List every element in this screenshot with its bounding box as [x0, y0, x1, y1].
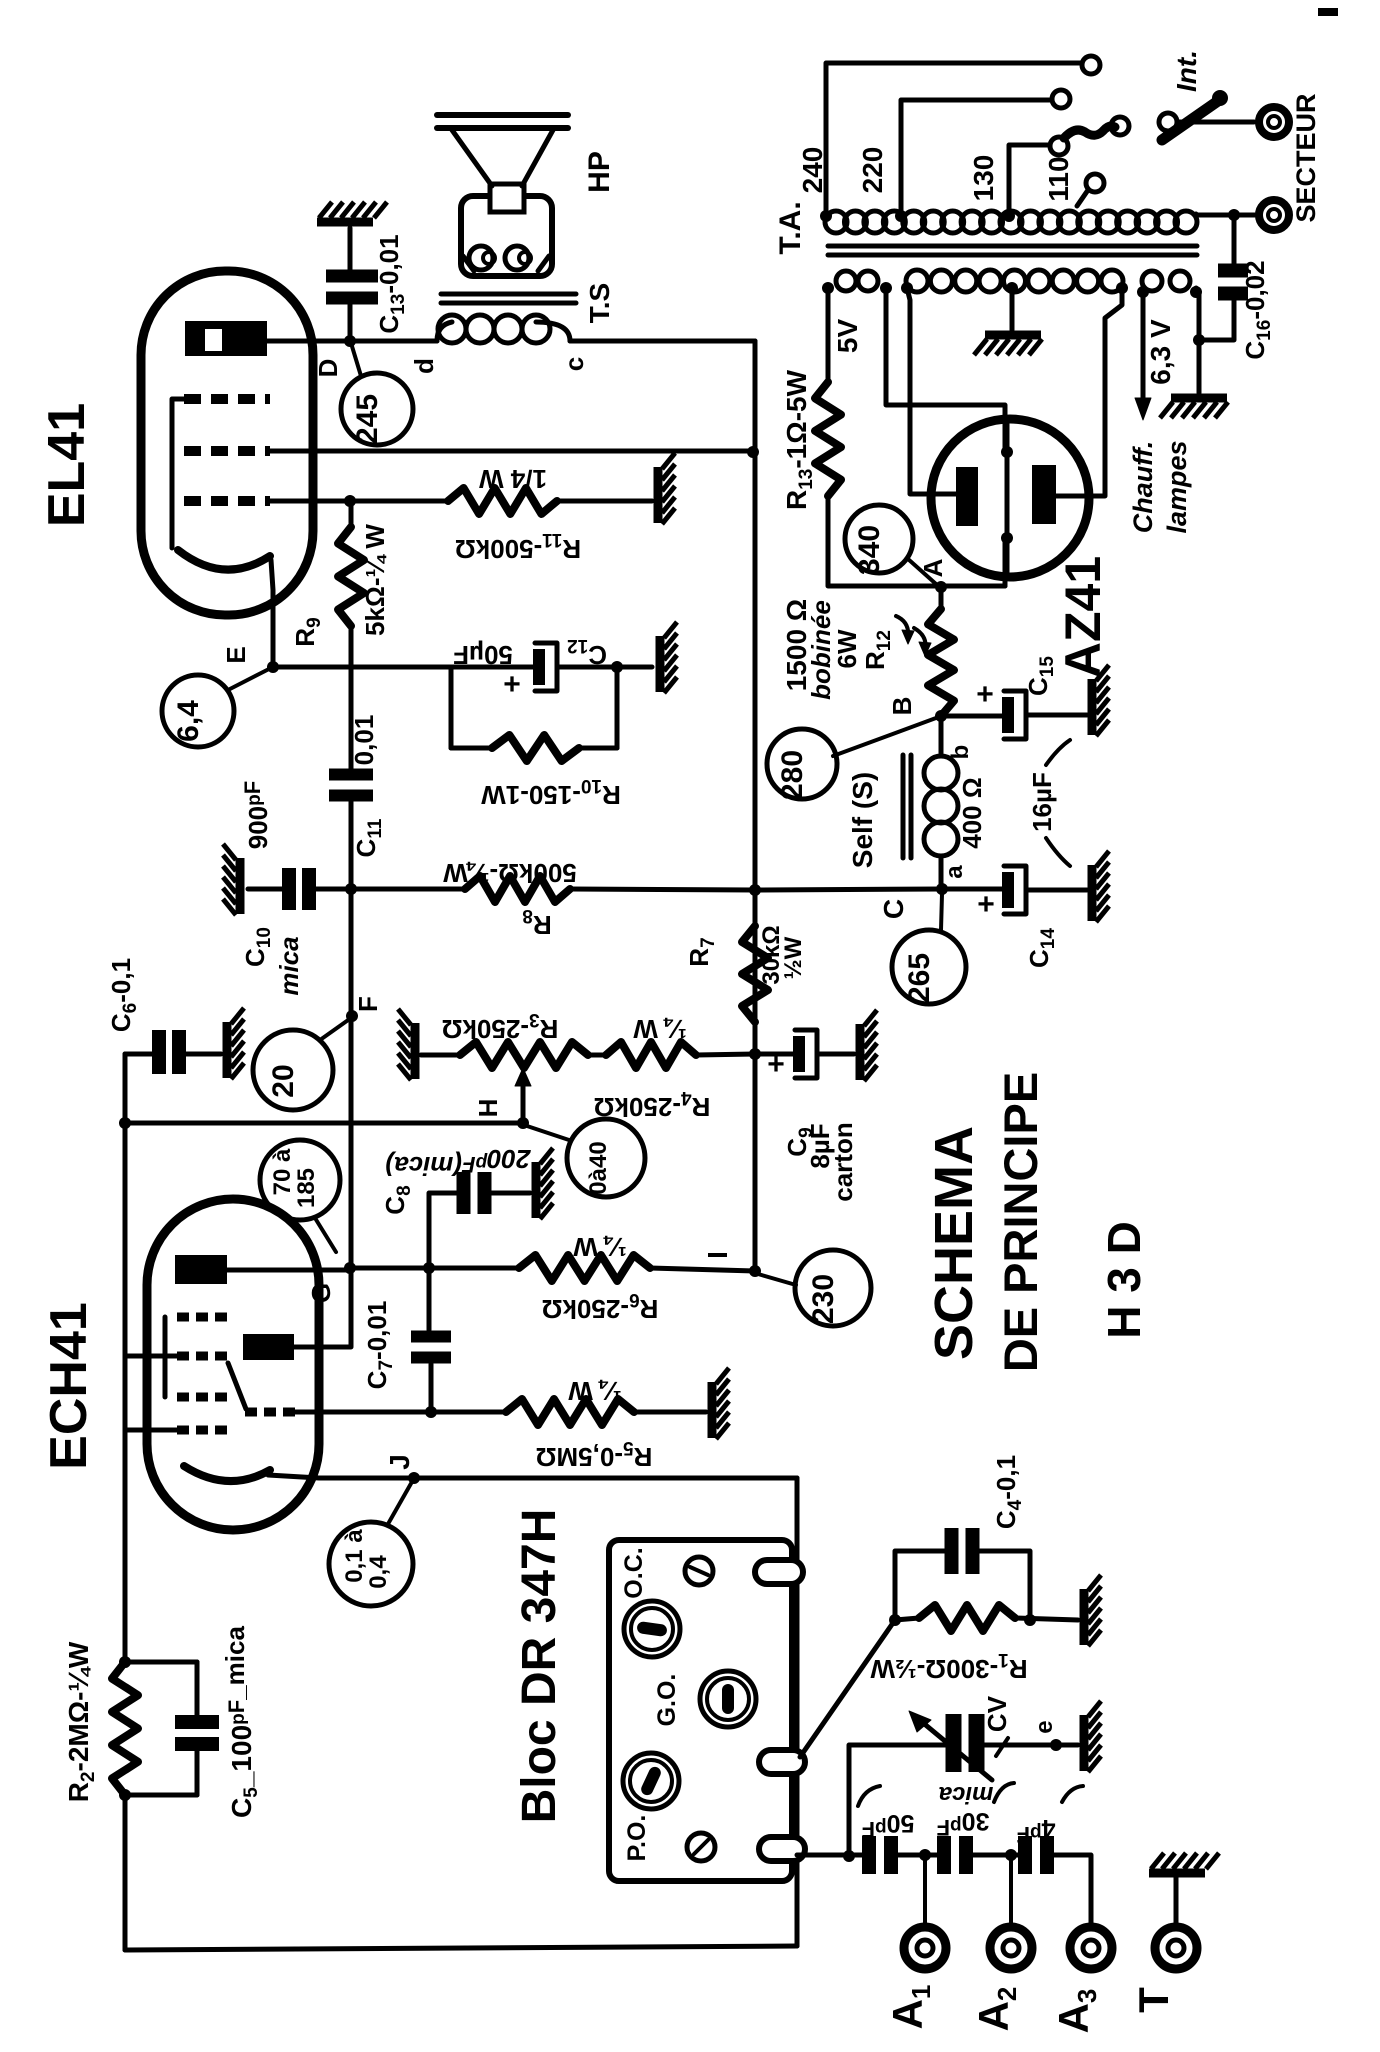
ground (C8): [532, 1162, 541, 1218]
capacitor C14 electrolytic: [1002, 872, 1014, 908]
svg-text:I: I: [702, 1251, 733, 1259]
T.A. HT winding: [906, 270, 928, 292]
EL41 anode plate: [185, 321, 267, 356]
circle 0,1a0,4: [329, 1522, 413, 1606]
svg-text:P.O.: P.O.: [623, 1815, 651, 1862]
wiper arrow: [521, 1075, 526, 1123]
svg-text:245: 245: [351, 394, 384, 444]
capacitor C13 wire: [348, 304, 353, 341]
node A junction: [935, 581, 947, 593]
svg-text:265: 265: [903, 953, 936, 1003]
Bloc box: [609, 1540, 792, 1881]
wire C11 to rail: [349, 801, 354, 889]
junction CV drop: [843, 1850, 855, 1862]
svg-text:SECTEUR: SECTEUR: [1291, 93, 1321, 222]
junction C7/R5: [425, 1406, 437, 1418]
svg-text:H: H: [473, 1099, 503, 1118]
wire HT center tap: [1010, 288, 1015, 330]
EL41 g3-cathode rail: [172, 399, 186, 548]
wire 240 tap: [826, 63, 1082, 214]
trimmer screw OC: [685, 1557, 713, 1585]
wire C2-C1: [972, 1853, 1019, 1858]
wire R9 to C11: [349, 667, 354, 769]
svg-text:0,4: 0,4: [365, 1555, 392, 1589]
ECH41 hexode anode: [175, 1255, 227, 1284]
resistor R6: [519, 1255, 650, 1281]
svg-text:+: +: [767, 1048, 785, 1081]
pointer 280 to B: [833, 718, 936, 756]
circle 0a40: [567, 1119, 645, 1197]
node B junction: [935, 710, 947, 722]
knob PO: [623, 1753, 679, 1809]
resistor R3: [460, 1042, 588, 1068]
pointer 70a185: [315, 1218, 336, 1252]
svg-text:mica: mica: [939, 1781, 994, 1808]
pointer 6,4 to E: [228, 669, 269, 690]
junction A1 drop: [919, 1849, 931, 1861]
wire anode row: [350, 1266, 519, 1271]
capacitor C13: [326, 270, 378, 283]
wire 6,3V left arrow: [1141, 290, 1146, 405]
terminal SECTEUR bottom: [1259, 200, 1289, 230]
svg-text:400 Ω: 400 Ω: [957, 777, 987, 848]
wire R6 to I: [650, 1268, 755, 1271]
svg-text:340: 340: [853, 525, 886, 575]
svg-text:¼ W: ¼ W: [568, 1376, 622, 1406]
Bloc bus vertical: [795, 1478, 800, 1946]
transformer T.A. primary: [825, 211, 847, 233]
svg-text:mica: mica: [274, 936, 304, 995]
T.S secondary loops: [469, 246, 493, 270]
svg-text:R5-0,5MΩ: R5-0,5MΩ: [536, 1437, 653, 1472]
speaker HP rim: [437, 112, 568, 118]
svg-text:T.S: T.S: [584, 283, 615, 323]
wire 110 tap: [1077, 190, 1088, 206]
wire C15 to ground: [1026, 713, 1087, 718]
svg-text:230: 230: [807, 1274, 840, 1324]
svg-text:C13-0,01: C13-0,01: [374, 234, 409, 333]
knob GO: [700, 1671, 756, 1727]
wire C to C14: [942, 887, 1002, 892]
resistor R12: [939, 587, 944, 609]
svg-text:6W: 6W: [832, 629, 862, 668]
wire rail to C: [755, 889, 942, 890]
svg-text:¼ W: ¼ W: [633, 1014, 687, 1044]
ECH41 grid row3: [177, 1393, 227, 1402]
transformer T.S primary: [438, 315, 466, 343]
svg-text:¼ W: ¼ W: [573, 1232, 627, 1262]
svg-text:carton: carton: [828, 1122, 858, 1201]
ground (CV): [1080, 1715, 1089, 1771]
terminal A3: [1070, 1927, 1112, 1969]
choke Self coil: [939, 716, 944, 755]
svg-text:16µF: 16µF: [1027, 772, 1057, 832]
svg-text:5kΩ-¼ W: 5kΩ-¼ W: [360, 524, 390, 636]
ECH41 triode anode: [243, 1334, 294, 1360]
bracket arc C2: [994, 1783, 1014, 1802]
capacitor C12 electrolytic: [533, 649, 545, 685]
wire R4 to node: [696, 1054, 755, 1055]
capacitor C6: [152, 1030, 166, 1074]
wire to ground (E): [617, 665, 652, 670]
junction R1 left: [889, 1614, 901, 1626]
wire C7 top: [427, 1268, 432, 1330]
svg-text:Self (S): Self (S): [847, 772, 878, 868]
ground (C6): [223, 1022, 232, 1078]
svg-text:d: d: [409, 358, 439, 374]
pointer 0a40 to H: [527, 1126, 569, 1140]
capacitor CV: [946, 1714, 962, 1772]
Bloc pin 1: [755, 1560, 803, 1584]
junction e: [1050, 1739, 1062, 1751]
node D junction: [344, 335, 356, 347]
junction C16 top: [1228, 209, 1240, 221]
capacitor C3: [862, 1836, 876, 1874]
wire E rail: [273, 665, 533, 670]
capacitor C10: [282, 868, 296, 910]
circle 340: [845, 505, 913, 573]
node E junction: [267, 661, 279, 673]
T.S primary hooks: [437, 322, 452, 341]
ECH41 triode grid row: [245, 1408, 295, 1417]
wire B to C15: [941, 714, 1002, 719]
wire R13 bottom: [828, 496, 1005, 586]
svg-text:185: 185: [293, 1168, 320, 1208]
wire to C9: [755, 1052, 793, 1057]
EL41 grid g2 row: [184, 446, 270, 456]
ECH41 cathode: [184, 1466, 270, 1481]
svg-text:+: +: [503, 668, 521, 701]
svg-text:CV: CV: [982, 1695, 1012, 1732]
ECH41 internal diagonal: [228, 1363, 246, 1409]
svg-text:J: J: [384, 1454, 415, 1470]
trimmer screw PO: [687, 1833, 715, 1861]
capacitor C1: [1018, 1836, 1032, 1874]
wire bottom grid: [125, 1428, 177, 1433]
wire rail to R8: [351, 887, 465, 892]
junction g1/R9: [344, 495, 356, 507]
junction C12/R10: [611, 661, 623, 673]
svg-text:+: +: [977, 888, 995, 921]
svg-text:R6-250kΩ: R6-250kΩ: [542, 1289, 659, 1324]
wire C16 top: [1232, 215, 1237, 269]
wire hexode anode: [227, 1268, 350, 1273]
terminal T: [1155, 1927, 1197, 1969]
wire C1 corner: [1053, 1855, 1091, 1924]
svg-text:R4-250kΩ: R4-250kΩ: [594, 1087, 711, 1122]
svg-text:220: 220: [857, 147, 888, 194]
wire gnd to R3: [421, 1053, 460, 1058]
C5 loop top: [125, 1660, 197, 1665]
resistor R11: [448, 488, 557, 514]
junction B+ rail: [749, 884, 761, 896]
pointer arrow R12 a: [896, 616, 908, 638]
speaker lead ticks: [463, 256, 474, 271]
terminal A1: [904, 1927, 946, 1969]
switch Int lever: [1162, 101, 1218, 140]
wire C13 to ground: [348, 228, 353, 272]
svg-text:F: F: [353, 996, 383, 1012]
svg-text:G.O.: G.O.: [653, 1674, 681, 1727]
wire 220 tap: [901, 100, 1051, 214]
junction R7/R4/C9: [749, 1048, 761, 1060]
T.A. 6,3V winding: [1142, 271, 1162, 291]
AZ41 left anode: [956, 467, 978, 526]
voltage circle 245: [341, 373, 413, 445]
EL41 grid g3 row: [184, 394, 270, 404]
wire C9 to ground: [817, 1052, 854, 1057]
C5 loop bottom: [195, 1750, 200, 1795]
wire A1 drop: [923, 1855, 927, 1926]
speaker HP cone: [452, 130, 492, 186]
bracket arc C1: [1062, 1786, 1083, 1802]
wire grid exit left: [125, 1354, 177, 1359]
wire F vertical: [349, 889, 354, 1268]
wire cathode rail down: [123, 1795, 128, 1950]
svg-text:G: G: [306, 1283, 336, 1303]
junction C8/C7: [423, 1262, 435, 1274]
svg-text:0,1 à: 0,1 à: [341, 1529, 368, 1583]
junction R2 bottom: [119, 1789, 131, 1801]
capacitor C16: [1218, 264, 1248, 278]
svg-text:110: 110: [1043, 156, 1074, 201]
svg-text:AZ41: AZ41: [1055, 556, 1111, 678]
pointer 340 to A: [908, 559, 936, 584]
wire 130 tap: [1009, 145, 1049, 214]
tube EL41 envelope: [141, 271, 313, 615]
capacitor C2: [937, 1836, 951, 1874]
svg-text:T.A.: T.A.: [774, 201, 807, 254]
wire CV left: [849, 1745, 946, 1856]
wire C6 left: [125, 1052, 152, 1057]
svg-text:C7-0,01: C7-0,01: [362, 1301, 397, 1390]
wire J rail: [268, 1475, 797, 1478]
tube AZ41 envelope: [931, 419, 1089, 577]
svg-text:R3-250kΩ: R3-250kΩ: [442, 1009, 559, 1044]
wire gnd to C10: [248, 887, 282, 892]
capacitor C15 electrolytic: [1002, 697, 1014, 733]
wire C8 up: [429, 1193, 457, 1268]
svg-text:20: 20: [267, 1064, 300, 1097]
node C junction: [936, 883, 948, 895]
ground (C14): [1088, 865, 1097, 921]
wire antenna rail: [797, 1853, 863, 1858]
node F junction: [346, 1010, 358, 1022]
junction 6,3V/C16: [1193, 334, 1205, 346]
wire triode anode: [294, 1268, 351, 1347]
capacitor C8: [457, 1172, 471, 1214]
socket 220: [1052, 90, 1070, 108]
node I junction: [749, 1265, 761, 1277]
resistor R10: [451, 746, 492, 751]
svg-text:B: B: [887, 697, 917, 716]
resistor R4: [606, 1042, 696, 1068]
speaker HP magnet box: [461, 196, 552, 276]
capacitor C11: [329, 769, 373, 781]
EL41 cathode: [178, 550, 270, 570]
svg-text:280: 280: [776, 750, 809, 800]
R10 loop left: [449, 667, 454, 748]
wire R7 node to I: [753, 1054, 758, 1271]
svg-text:70 à: 70 à: [269, 1148, 296, 1195]
svg-text:SCHEMA: SCHEMA: [924, 1126, 984, 1360]
svg-text:500kΩ-¼W: 500kΩ-¼W: [443, 858, 577, 888]
C4 loop: [895, 1551, 946, 1620]
EL41 grid g1 row: [184, 496, 270, 506]
svg-text:+: +: [976, 678, 994, 711]
wire CV right: [984, 1743, 1078, 1748]
B+ vertical rail: [753, 341, 758, 1271]
svg-text:C6-0,1: C6-0,1: [106, 958, 141, 1032]
mains jumper wavy: [1064, 126, 1115, 138]
wire filament bottom: [1003, 538, 1008, 586]
speaker HP throat: [490, 184, 524, 212]
circle 280: [767, 729, 837, 799]
ground (C13): [317, 218, 373, 227]
wire C14 to ground: [1026, 888, 1087, 893]
svg-text:EL41: EL41: [38, 403, 96, 527]
capacitor C4: [945, 1528, 959, 1574]
CV arrow: [916, 1717, 992, 1780]
ground (R1): [1080, 1589, 1089, 1645]
ground (HT center): [985, 331, 1041, 340]
ground (C9): [856, 1024, 865, 1080]
terminal SECTEUR top: [1259, 107, 1289, 137]
wire C7 bottom: [429, 1364, 434, 1412]
pointer 16uF lower: [1046, 838, 1070, 866]
svg-text:HP: HP: [583, 151, 616, 193]
wire R5 to ground: [634, 1410, 706, 1415]
capacitor C9 electrolytic: [793, 1036, 805, 1072]
ground (T): [1149, 1869, 1205, 1878]
circle 230: [795, 1250, 871, 1326]
ground (C15): [1088, 679, 1097, 735]
ECH41 grid row4: [177, 1426, 227, 1435]
circle 70a185: [260, 1140, 340, 1220]
wire diagonal to R1: [800, 1620, 895, 1757]
svg-text:C: C: [878, 899, 909, 919]
wire C3-C2: [897, 1853, 938, 1858]
R10 loop right: [615, 667, 620, 748]
wire 5V right to AZ41: [886, 288, 1005, 452]
Bloc pin 2: [759, 1750, 805, 1774]
junction A2 drop: [1005, 1849, 1017, 1861]
svg-text:lampes: lampes: [1162, 440, 1192, 533]
junction R2 top: [119, 1656, 131, 1668]
wire R9 top: [349, 501, 354, 527]
junction J pointer: [408, 1472, 420, 1484]
pointer 16uF upper: [1046, 740, 1070, 765]
wire primary to secteur: [1196, 214, 1256, 215]
svg-text:5V: 5V: [832, 319, 863, 354]
svg-text:130: 130: [968, 155, 999, 202]
socket 130: [1050, 137, 1068, 155]
junction anodes/F: [344, 1262, 356, 1274]
ground (C10): [236, 858, 245, 914]
wire R3-R4: [588, 1053, 606, 1058]
svg-text:b: b: [947, 745, 974, 760]
svg-text:1/4 W: 1/4 W: [479, 464, 547, 494]
svg-text:DE PRINCIPE: DE PRINCIPE: [994, 1072, 1047, 1372]
ground (R11): [654, 467, 663, 523]
junction H rail: [119, 1117, 131, 1129]
wire g1 to R11: [270, 499, 448, 504]
choke core: [901, 755, 906, 858]
ground (6,3V): [1171, 394, 1227, 403]
capacitor C5: [175, 1715, 219, 1729]
svg-text:a: a: [941, 865, 968, 879]
bracket arc C3: [858, 1786, 880, 1806]
knob OC: [624, 1601, 680, 1657]
svg-text:H 3 D: H 3 D: [1098, 1221, 1150, 1339]
svg-text:c: c: [559, 357, 589, 371]
svg-text:D: D: [313, 359, 343, 378]
svg-text:0à40: 0à40: [585, 1141, 612, 1194]
wire EL41 anode to node D: [267, 339, 437, 344]
ground (R5): [708, 1382, 717, 1438]
switch contact b: [1159, 113, 1177, 131]
wire C16 bottom: [1199, 296, 1234, 340]
pointer arrow R12 b: [914, 628, 926, 650]
terminal A2: [990, 1927, 1032, 1969]
svg-text:240: 240: [797, 147, 828, 194]
wire R9 bottom: [349, 626, 354, 667]
tube ECH41 envelope: [147, 1199, 319, 1530]
ground (R3): [411, 1023, 420, 1079]
Bloc pin 3: [759, 1837, 805, 1861]
svg-text:O.C.: O.C.: [620, 1547, 648, 1598]
circle 20: [253, 1030, 333, 1110]
wire switch to secteur: [1177, 120, 1254, 125]
svg-text:Chauff.: Chauff.: [1128, 441, 1158, 534]
wire R8 to rail: [570, 889, 755, 890]
switch contact a: [1111, 117, 1129, 135]
svg-text:E: E: [221, 646, 251, 663]
wire C12 to junction: [557, 665, 617, 670]
resistor R9: [338, 527, 364, 626]
wire HT right to anode: [1056, 288, 1122, 496]
wire R11 to ground: [557, 499, 652, 504]
svg-text:Bloc DR 347H: Bloc DR 347H: [513, 1509, 566, 1824]
node H junction: [517, 1117, 529, 1129]
wire C10 to junction: [316, 887, 351, 892]
wire 6,3V right: [1196, 288, 1199, 340]
pointer 265 to C: [941, 894, 942, 930]
svg-text:C16-0,02: C16-0,02: [1240, 260, 1275, 359]
wire A2 drop: [1009, 1855, 1013, 1926]
svg-text:½W: ½W: [780, 936, 807, 979]
AZ41 right anode: [1032, 465, 1056, 524]
wire bottom rail: [125, 1946, 797, 1950]
ECH41 grid row2: [177, 1352, 227, 1361]
wire T to ground: [1174, 1877, 1179, 1926]
svg-text:Int.: Int.: [1171, 50, 1202, 92]
transformer T.S core: [441, 292, 576, 297]
wire C6 right: [186, 1052, 221, 1057]
pointer 20 to F: [320, 1018, 351, 1040]
resistor R13: [815, 382, 841, 496]
junction screen: [747, 446, 759, 458]
pointer 0,1a0,4 to J: [388, 1480, 413, 1524]
AZ41 filament: [1005, 421, 1010, 575]
wire EL41 cathode to E: [271, 560, 273, 667]
ground (E rail): [656, 636, 665, 692]
ECH41 grid row1: [177, 1313, 227, 1322]
socket 240: [1082, 56, 1100, 74]
wire triode grid: [293, 1410, 506, 1415]
circle 265: [892, 930, 966, 1004]
svg-text:e: e: [1031, 1720, 1058, 1733]
